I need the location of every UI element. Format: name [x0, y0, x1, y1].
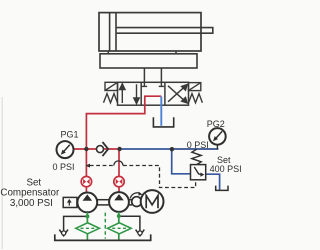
coupling — [132, 197, 142, 207]
blue relief outlet to tank — [206, 174, 220, 190]
svg-text:PG1: PG1 — [60, 130, 78, 140]
dashed pilot line to relief — [90, 166, 196, 188]
case drain line right — [121, 216, 145, 236]
pump P2 — [109, 192, 129, 212]
svg-text:0 PSI: 0 PSI — [52, 162, 74, 172]
drive shaft P1-P2 — [97, 200, 109, 205]
valve tank symbol — [153, 117, 173, 127]
valve center cell blocked port T stubs — [142, 82, 164, 86]
green node P2 drain — [117, 214, 121, 218]
cylinder piston — [110, 13, 116, 51]
green suction line P1 — [86, 212, 88, 240]
green suction line P2 — [118, 212, 120, 240]
green dashed case drain — [104, 213, 106, 239]
shutoff valve SV1 — [81, 176, 91, 186]
pilot line arrowhead — [85, 164, 90, 168]
cylinder C1 barrel — [99, 13, 201, 51]
rotation arrow — [130, 192, 142, 199]
motor M1 — [141, 190, 164, 213]
relief valve RV1 body — [191, 165, 206, 180]
strainer F1 — [76, 223, 100, 234]
wire B (cylinder to valve) — [160, 68, 162, 82]
shutoff valve SV2 — [114, 176, 124, 186]
blue rail — [120, 148, 172, 150]
manifold bar — [100, 54, 197, 68]
junction node A — [84, 147, 88, 151]
blue valve T drop to tank — [160, 96, 162, 125]
red drop to pump2 — [118, 149, 120, 193]
green node P1 drain — [85, 214, 89, 218]
red rail PG1 to check valve — [74, 148, 120, 150]
dashed pilot line crossover hump — [114, 161, 123, 166]
valve right cell crossed arrows — [168, 85, 187, 103]
left edge scan artifact — [1, 97, 3, 249]
directional valve V1 envelope — [118, 82, 189, 105]
wire A (cylinder to valve) — [143, 68, 145, 82]
svg-text:Compensator: Compensator — [0, 187, 60, 198]
valve left cell down arrow — [134, 84, 139, 103]
compensator box — [63, 197, 77, 207]
valve left cell up arrow — [120, 84, 125, 103]
relief tank symbol — [216, 186, 228, 191]
junction node B — [117, 147, 121, 151]
blue line to relief valve — [172, 149, 191, 174]
spring left — [104, 94, 118, 103]
gauge PG1 — [57, 141, 74, 158]
svg-text:0 PSI: 0 PSI — [187, 140, 209, 150]
reservoir tank — [55, 234, 151, 240]
drive shaft P2-coupling — [129, 200, 132, 205]
check valve CV1 — [97, 142, 109, 156]
relief valve RV1 spring — [192, 149, 201, 164]
red pressure line: valve P jog — [86, 96, 161, 193]
svg-text:PG2: PG2 — [207, 119, 225, 129]
cylinder mount legs — [108, 51, 176, 54]
case drain line left — [59, 216, 85, 235]
spring right — [189, 94, 203, 103]
pump P1 — [77, 193, 97, 213]
svg-text:400 PSI: 400 PSI — [210, 164, 242, 174]
solenoid right — [189, 83, 201, 91]
cylinder rod — [117, 28, 213, 34]
solenoid left — [105, 82, 118, 90]
junction node C — [170, 147, 174, 151]
wire rail right — [172, 148, 218, 150]
svg-text:3,000 PSI: 3,000 PSI — [10, 198, 53, 209]
gauge PG2 — [209, 128, 226, 149]
strainer F2 — [108, 223, 132, 234]
